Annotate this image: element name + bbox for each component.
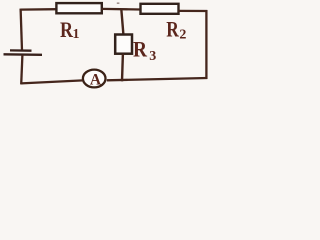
wire bottom-left segment xyxy=(21,80,83,83)
svg-text:3: 3 xyxy=(149,49,156,64)
wire right side vertical xyxy=(205,10,207,79)
svg-text:R: R xyxy=(133,36,148,61)
wire bottom-right segment xyxy=(107,78,208,80)
battery B1 short plate (top) xyxy=(10,49,32,52)
resistor R2 xyxy=(141,4,179,14)
svg-text:1: 1 xyxy=(73,27,80,42)
wire R3 to bottom wire xyxy=(121,54,124,82)
svg-text:A: A xyxy=(90,71,102,88)
wire left upper vertical xyxy=(21,9,22,51)
scan speck near junction xyxy=(117,2,120,4)
wire R1 to junction to R2 xyxy=(102,8,141,11)
wire top-left segment xyxy=(21,8,58,11)
resistor R3 xyxy=(115,35,132,54)
battery B1 long plate (bottom) xyxy=(4,53,43,56)
wire R2 to top-right corner xyxy=(179,10,208,12)
ammeter A1 xyxy=(83,70,106,88)
wire left lower vertical xyxy=(21,55,22,84)
svg-text:2: 2 xyxy=(179,28,186,43)
resistor R1 xyxy=(56,3,101,13)
svg-text:R: R xyxy=(166,16,179,41)
node junction on top wire xyxy=(121,9,123,35)
